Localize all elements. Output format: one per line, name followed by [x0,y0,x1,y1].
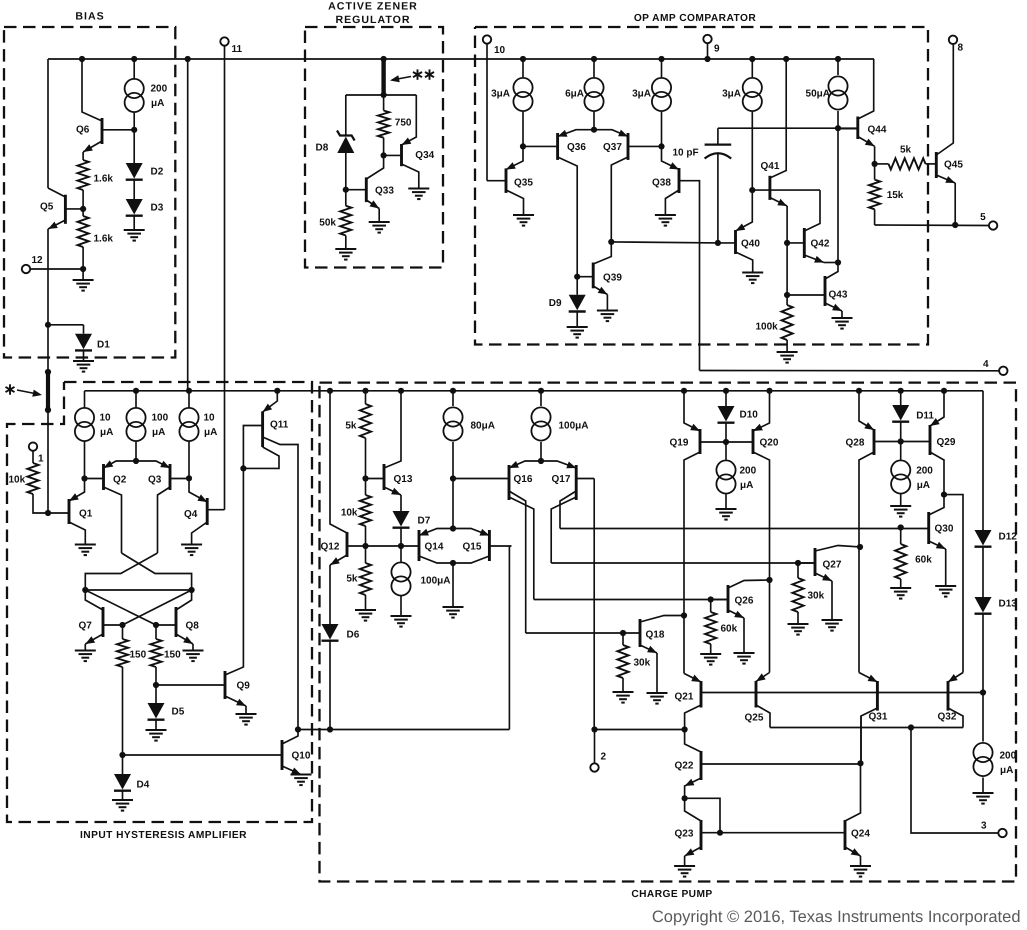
resistor 100k [786,295,788,305]
node: Q3 base / Q4 emitter at 10uA [186,475,192,481]
svg-text:D5: D5 [172,707,185,718]
svg-text:3μA: 3μA [722,89,741,100]
svg-text:Q15: Q15 [463,542,482,553]
svg-text:Q41: Q41 [761,161,780,172]
ground below Q40 [742,272,763,274]
ground below Q23 [684,856,686,866]
node: Q14/Q15 collectors to ground [450,560,456,566]
ground below Q34 collector [408,188,429,190]
current source 3uA #1 [522,59,524,77]
svg-text:50μA: 50μA [806,89,830,100]
diode D2 [133,130,135,163]
asterisk note on trigger line [9,384,11,394]
ground below 200uA right [900,495,902,507]
node: Q27 collector on Q28 column [857,544,863,550]
svg-text:10k: 10k [9,475,26,486]
ground below Q30 [945,549,947,586]
svg-text:30k: 30k [808,591,825,602]
current source 200uA bias [133,59,135,79]
node: Q21 collector / Q22 emitter [682,726,688,732]
block outline: INPUT HYSTERESIS AMPLIFIER [7,382,312,822]
svg-text:Q32: Q32 [938,712,957,723]
node: Q11 base/collector tie [240,465,246,471]
node: Q28/Q29 bases [900,422,902,442]
svg-text:D7: D7 [418,516,431,527]
node: Q41 base / Q40 emitter [749,187,755,193]
svg-text:Q21: Q21 [675,692,694,703]
svg-text:200: 200 [1000,751,1017,762]
transistor Q32 [947,681,950,711]
node: Q19/Q20 bases [725,423,727,442]
svg-text:Q37: Q37 [603,142,622,153]
svg-text:μA: μA [151,98,164,109]
svg-text:REGULATOR: REGULATOR [335,14,410,26]
ground below 200uA bottom [982,778,984,794]
svg-text:ACTIVE ZENER: ACTIVE ZENER [328,0,418,12]
diode D7 [400,495,402,511]
transistor Q3 [169,464,172,490]
resistor 1.6k lower [82,209,84,216]
latch cross wiring upper X [122,553,192,590]
ground below 100k [786,340,788,352]
transistor Q27 [814,548,817,576]
svg-text:Q14: Q14 [425,542,444,553]
transistor Q16 dual collector [508,465,511,500]
wire: Q38 base to pin 4 [700,370,1000,372]
transistor Q5 [64,195,67,224]
resistor 5k horizontal [875,163,889,165]
ground below Q10 [291,774,312,776]
wire: lower supply bus y=390.8 [85,390,984,392]
ground below Q9 [245,706,247,714]
svg-text:10k: 10k [341,508,358,519]
diode D12 [975,530,992,546]
thick node wire with ** note [381,59,385,95]
diode D6 [329,565,331,624]
current source 6uA [593,59,595,77]
resistor 1.6k upper [78,160,89,190]
svg-text:μA: μA [917,480,930,491]
transistor Q35 [505,168,508,193]
terminal pin 9 [703,35,711,43]
node: Q12 base [365,526,367,546]
svg-text:D9: D9 [549,298,562,309]
svg-text:30k: 30k [634,658,651,669]
svg-text:μA: μA [204,427,217,438]
svg-text:11: 11 [232,44,243,55]
node: Q44 emitter / 5k / 15k [874,146,876,164]
ground below 60k [710,644,712,654]
resistor 10k at pin 1 [32,451,34,463]
transistor Q37 [627,133,630,160]
wire 10k to Q1 base node [33,494,48,513]
diode D10 [725,391,727,406]
transistor Q42 [803,228,806,258]
wire: Q16 collector to Q18 base y=633 [526,632,640,634]
ground at pin 12 divider [73,279,94,281]
ground below Q1 [75,544,96,546]
svg-text:5k: 5k [345,421,357,432]
block outline: BIAS [4,27,175,358]
node: Q18/Q19 collectors [681,612,687,618]
svg-text:Q40: Q40 [741,239,760,250]
wire: Q21/Q31/Q32 base rail y=692.5 [701,692,983,694]
svg-text:10: 10 [494,45,506,56]
svg-text:BIAS: BIAS [75,10,104,22]
transistor Q40 [734,230,737,254]
svg-text:D3: D3 [151,202,164,213]
svg-text:D4: D4 [137,780,150,791]
svg-text:Q23: Q23 [675,828,694,839]
transistor Q9 [224,671,227,699]
current source 3uA #2 [661,59,663,77]
wire: Q22 collector to Q23 base [685,798,720,832]
svg-text:5k: 5k [900,145,912,156]
ground below Q18 [656,653,658,693]
ground below Q24 [860,856,862,866]
diode D3 [133,180,135,199]
svg-text:200: 200 [151,84,168,95]
svg-text:6μA: 6μA [565,89,584,100]
wire Q6 emitter to resistor [82,152,84,160]
current source 10uA #2 [188,391,190,408]
svg-text:Q30: Q30 [935,524,954,535]
ground below D1 [83,351,85,362]
transistor Q29 [929,425,932,455]
svg-text:Q1: Q1 [79,509,93,520]
current source 3uA #3 [751,59,753,77]
thick trigger wire segment [47,325,49,372]
transistor Q20 [752,429,755,454]
svg-text:Q28: Q28 [846,438,865,449]
ground below 50k [345,236,347,250]
wire: Q10/D6/Q15-base net y=729.5 [298,729,509,731]
svg-text:9: 9 [714,44,720,55]
transistor Q44 [856,117,859,140]
svg-text:D1: D1 [97,339,110,350]
transistor Q23 [700,820,703,850]
wire: cap to Q44 base y=128.2 [718,127,858,129]
ground below D3 [133,216,135,230]
svg-text:3μA: 3μA [491,89,510,100]
svg-text:1.6k: 1.6k [94,173,114,184]
wire pin 9 to bus [707,43,709,59]
svg-text:3μA: 3μA [632,89,651,100]
svg-text:60k: 60k [915,555,932,566]
transistor Q13 [383,464,386,490]
svg-text:CHARGE PUMP: CHARGE PUMP [631,889,712,900]
resistor 30k at Q18 [622,633,624,645]
transistor Q34 [400,144,403,166]
svg-text:Q34: Q34 [415,150,434,161]
node: Q29/Q30 collectors [941,492,947,498]
terminal pin 1 [29,442,37,450]
node: Q36 base / Q35 emitter [520,143,526,149]
transistor Q15 [488,530,491,561]
svg-text:10 pF: 10 pF [673,147,699,158]
wire pin 11 down to Q4 base [224,46,226,510]
wire pin 12 to node [30,268,83,270]
wire y=242 to Q40 base [611,242,718,243]
svg-text:Q10: Q10 [292,751,311,762]
svg-text:8: 8 [958,43,964,54]
transistor Q26 [727,585,730,613]
transistor Q6 [101,118,104,144]
transistor Q36 [556,133,559,160]
ground below Q43 [841,311,843,318]
svg-text:2: 2 [601,752,607,763]
svg-text:10: 10 [100,413,112,424]
transistor Q21 [700,681,703,708]
transistor Q17 dual collector [575,465,578,500]
svg-text:μA: μA [152,427,165,438]
wire Q28 column to Q31 collector node [860,716,862,763]
node: Q34 base / Q33 collector [383,138,385,156]
svg-text:150: 150 [130,650,147,661]
svg-text:1: 1 [38,454,44,465]
node: Q36 collector / D9 / Q39 base [574,274,580,280]
transistor Q28 [873,429,876,455]
transistor Q18 [639,619,642,647]
wire Q14 base [366,545,420,547]
svg-text:100k: 100k [756,322,779,333]
node: Q14/Q15 emitters [450,525,456,531]
wire: Q5 emitter down to D1 node [47,229,49,325]
transistor Q14 [418,530,421,561]
ground below Q27 emitter [831,581,833,620]
node: Q2/Q3 emitters [133,458,139,464]
svg-text:Q3: Q3 [148,474,162,485]
svg-text:Q36: Q36 [567,142,586,153]
wire: Q10 base [123,754,283,756]
ground below D5 [155,720,157,730]
ground below Q38 [655,214,676,216]
ground below 100uA [400,596,402,616]
svg-text:D13: D13 [999,599,1018,610]
svg-text:Q38: Q38 [652,178,671,189]
transistor Q8 [175,607,178,637]
ground below Q26 emitter [743,618,745,653]
svg-text:750: 750 [395,117,412,128]
transistor Q22 [700,751,703,780]
ground below D4 [122,791,124,800]
ground below Q39 [606,295,608,311]
current source 100uA mirror pair [540,391,542,406]
diode D1 [48,324,84,326]
terminal pin 11 [220,37,228,45]
svg-text:Q6: Q6 [76,124,90,135]
svg-text:Q4: Q4 [184,509,198,520]
svg-text:Q35: Q35 [514,178,533,189]
transistor Q1 [68,499,71,524]
current source 200uA charge [725,442,727,460]
resistor 5k lower [365,546,367,563]
node: diff pair emitters [591,127,597,133]
ground below Q4 [181,544,202,546]
current source 80uA [452,391,454,406]
svg-text:Q12: Q12 [321,542,340,553]
ground below 5k [365,595,367,610]
transistor Q41 [768,176,771,200]
svg-text:μA: μA [740,480,753,491]
node: Q10 collector on cross wire [295,726,301,732]
svg-text:Q13: Q13 [394,474,413,485]
node: D7 / Q14 base / 100uA [400,528,402,546]
svg-text:Q42: Q42 [811,239,830,250]
wire 150 right down to D5 node [155,667,157,685]
resistor 15k [874,164,876,180]
resistor 10k middle [365,479,367,496]
node: Q13 base [365,438,367,479]
transistor Q38 [678,168,681,193]
node: Q1/Q2 at 10uA source [81,475,87,481]
diode D9 [576,277,578,295]
transistor Q31 [876,681,879,711]
svg-text:Q45: Q45 [944,160,963,171]
svg-text:Q24: Q24 [851,828,870,839]
svg-text:Q33: Q33 [375,185,394,196]
svg-text:D8: D8 [316,143,329,154]
junction dots on top bus [79,56,85,62]
svg-text:Q25: Q25 [745,712,764,723]
terminal pin 8 [949,36,957,44]
ground below 30k [622,678,624,692]
ground below D9 [576,312,578,328]
resistor 60k at Q26 [710,600,712,613]
resistor 150 right [155,625,157,639]
svg-text:15k: 15k [887,190,904,201]
current source 200uA right [900,442,902,460]
wire: zener node branches [346,94,417,96]
node: Q5 base [82,190,84,209]
svg-text:Copyright © 2016, Texas Instru: Copyright © 2016, Texas Instruments Inco… [652,908,1021,926]
wire: bus end to D12 [982,391,984,530]
current source 50uA [837,59,839,75]
node: Q42 emitter on 50uA column [835,259,841,265]
wire: left column from bus to Q5 collector [47,59,49,188]
node: pin 3 tap [908,724,914,730]
block outline: ACTIVE ZENER REGULATOR [305,27,443,268]
svg-text:OP AMP COMPARATOR: OP AMP COMPARATOR [634,13,757,24]
ground below Q33 emitter [378,209,380,223]
node: Q37 base / Q38 emitter [658,143,664,149]
wire to pin12 node and ground [82,247,84,280]
wire 150 left down to D4 node [122,667,124,755]
wire: Q16 collector to Q26 base y=599.5 [534,599,728,601]
svg-text:D11: D11 [916,411,934,422]
current source 100uA tail [400,546,402,562]
node: Q18 base / 30k [620,630,626,636]
resistor 750 [383,95,385,111]
svg-text:D12: D12 [999,532,1018,543]
svg-text:100μA: 100μA [421,576,451,587]
svg-text:Q2: Q2 [113,474,127,485]
svg-text:μA: μA [100,427,113,438]
svg-text:D2: D2 [151,166,164,177]
terminal pin 10 [483,35,491,43]
terminal pin 3 [998,829,1006,837]
svg-text:Q43: Q43 [829,290,848,301]
node: Q22/Q23 collectors [682,795,688,801]
svg-text:Q5: Q5 [40,202,54,213]
transistor Q39 [592,263,595,289]
svg-text:Q9: Q9 [237,681,251,692]
node: Q39 collector / comparator wire [608,239,614,245]
resistor 5k upper [365,391,367,404]
svg-text:5k: 5k [346,574,358,585]
ground below Q7 [84,644,86,651]
ground below 200uA [725,495,727,510]
transistor Q45 [935,152,938,178]
svg-text:INPUT HYSTERESIS AMPLIFIER: INPUT HYSTERESIS AMPLIFIER [80,830,247,841]
svg-text:Q8: Q8 [186,621,200,632]
svg-text:Q29: Q29 [937,437,956,448]
wire 15k to pin 5 [874,209,876,225]
svg-text:Q26: Q26 [735,596,754,607]
node: D13 to output bias net [982,614,984,693]
node: Q26 collector on Q20 column [766,577,772,583]
transistor Q25 [755,681,758,708]
wire: Q17 collector to Q27 base y=563 [551,562,815,564]
svg-text:100μA: 100μA [559,421,589,432]
annotation ** with arrow [417,69,419,79]
zener diode D8 [345,95,347,136]
diode D5 [155,685,157,703]
wire: pin 2 net [594,729,684,731]
block outline: CHARGE PUMP [320,383,1017,882]
ground below Q35 [513,214,534,216]
latch cross wiring lower X [85,590,156,625]
svg-text:Q19: Q19 [670,438,689,449]
svg-text:100: 100 [152,413,169,424]
svg-text:Q11: Q11 [270,419,289,430]
wire: Q41 emitter column [786,206,788,295]
svg-text:80μA: 80μA [471,421,495,432]
svg-text:Q27: Q27 [823,560,842,571]
transistor Q2 [102,464,105,490]
svg-text:4: 4 [983,359,989,370]
svg-text:200: 200 [916,466,933,477]
svg-text:Q16: Q16 [514,474,533,485]
junction dots on lower bus [133,388,139,394]
wire: Q17 base to pin 2 net [593,479,595,730]
svg-text:D10: D10 [740,410,759,421]
latch horizontal wire [85,589,191,591]
wire to Q32 emitter column [944,495,963,673]
svg-text:10: 10 [204,413,216,424]
svg-text:D6: D6 [347,630,360,641]
block outline: OP AMP COMPARATOR [475,27,928,345]
svg-text:200: 200 [740,466,757,477]
node: Q22 base / Q28 collector / Q24 collector [857,760,863,766]
svg-text:12: 12 [32,255,44,266]
transistor Q30 [927,512,930,544]
wire pin 10 to Q35 base [486,44,488,181]
svg-text:Q31: Q31 [869,712,888,723]
ground below 60k right [900,579,902,588]
svg-text:μA: μA [1000,765,1013,776]
wire: Q17 collector to Q30 base y=528.5 [560,528,929,530]
svg-text:Q39: Q39 [603,272,622,283]
svg-text:Q7: Q7 [79,621,93,632]
transistor Q7 [102,607,105,637]
current source 200uA bottom [982,693,984,742]
diode D4 [122,755,124,774]
transistor Q11 dual collector [261,411,264,447]
current source 10uA #1 [84,391,86,408]
transistor Q4 [206,498,209,525]
transistor Q24 [844,820,847,850]
